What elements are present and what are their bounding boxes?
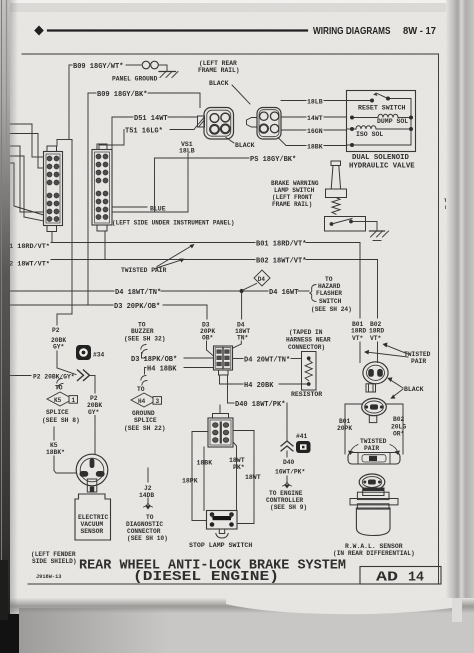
multi-pin connector B (second column) bbox=[97, 144, 107, 150]
wire B01 down to sensor bbox=[359, 243, 361, 319]
valve box bottom wire bbox=[347, 144, 412, 146]
resistor R1 bbox=[302, 352, 317, 391]
round connector C2 (right half) bbox=[257, 108, 281, 140]
wire D51 14WT bbox=[112, 116, 133, 118]
bottom grey table area bbox=[0, 610, 474, 653]
sensor connector oval 2 bbox=[362, 398, 387, 415]
wire H4 18BK bbox=[145, 367, 147, 369]
AD 14 box bbox=[360, 567, 441, 585]
wire from splice down to vacuum sensor bbox=[90, 375, 95, 377]
stop lamp wiring loop bbox=[192, 431, 208, 433]
spine dark strip bbox=[0, 0, 10, 653]
brake warning switch body bbox=[325, 217, 366, 232]
ground symbol (brake warning switch) bbox=[370, 230, 385, 232]
bracket vertical from B09 18GY/WT* bbox=[68, 65, 70, 140]
wire from switch to ground bbox=[366, 221, 378, 223]
wire K5 18BK* bbox=[53, 427, 55, 440]
axle connector bar bbox=[348, 453, 400, 465]
wire D4 18WT/TN* bbox=[8, 290, 114, 292]
header rule bbox=[48, 29, 307, 31]
wire B01 18RD/VT* bbox=[51, 232, 53, 243]
brake warning switch spring bbox=[332, 198, 340, 215]
wire D40 18WT/PK* bbox=[227, 375, 229, 403]
wire B09 18GY/BK* bbox=[88, 92, 96, 94]
curved white paper bottom right bbox=[226, 598, 452, 614]
arrow to engine controller bbox=[286, 476, 288, 482]
frame border top bbox=[22, 53, 439, 55]
diamond symbol D4 bbox=[254, 270, 270, 286]
wire D4 16WT to hazard flasher bbox=[244, 290, 269, 292]
brake warning switch plunger bbox=[331, 161, 341, 166]
C1 wire seal tab bbox=[198, 116, 205, 127]
break chevrons on D40 wire bbox=[281, 441, 293, 451]
wire D3 18PK/OB* bbox=[142, 357, 147, 359]
junction node D4 bbox=[240, 289, 244, 293]
wire H4 20BK bbox=[219, 375, 221, 384]
electric vacuum sensor connector (round) bbox=[76, 454, 108, 486]
wire B09 18GY/WT* to panel ground bbox=[69, 64, 72, 66]
frame border right bbox=[438, 54, 440, 584]
6-pin connector C3 bbox=[214, 346, 233, 370]
dump solenoid coil bbox=[352, 117, 378, 119]
wire 18BK bbox=[278, 138, 286, 146]
wire B02 down to sensor bbox=[377, 260, 379, 319]
in-line connector symbol on panel ground wire bbox=[142, 61, 150, 69]
wire D4 20WT/TN* to resistor bbox=[233, 358, 244, 360]
wire 16GN bbox=[281, 129, 306, 131]
frame border bottom bbox=[28, 583, 441, 585]
header diamond bbox=[34, 26, 44, 36]
wire PS 18GY/BK* bbox=[155, 157, 249, 159]
right page edge band bbox=[446, 0, 474, 653]
multi-pin connector A (left column) bbox=[47, 146, 57, 152]
reset switch bbox=[347, 100, 371, 102]
bottom shadow band under paper bbox=[0, 598, 474, 613]
iso solenoid coil bbox=[347, 128, 357, 130]
D3 branch down to connector bbox=[206, 305, 208, 319]
splice reference K5 bbox=[57, 378, 63, 388]
bottom-left black block bbox=[0, 614, 19, 653]
connector symbol #34 bbox=[76, 345, 91, 360]
wire P2 20BK/GY* from left edge bbox=[8, 375, 31, 377]
dual solenoid hydraulic valve box bbox=[347, 91, 416, 152]
splice chevrons bbox=[78, 370, 90, 381]
sensor connector oval 1 bbox=[363, 362, 388, 384]
label BLUE with leader bbox=[113, 206, 147, 208]
brace to hazard flasher switch bbox=[309, 285, 316, 302]
R.W.A.L. sensor connector oval 3 bbox=[359, 474, 385, 490]
D4 branch down to connector bbox=[241, 293, 243, 319]
round connector C1 black (left half) bbox=[204, 108, 234, 140]
panel ground symbol bbox=[166, 65, 168, 72]
stop lamp switch SW1 bbox=[207, 511, 238, 530]
wire B02 18WT/VT* bbox=[104, 231, 106, 260]
wire T51 16LG* bbox=[170, 129, 194, 131]
stop lamp loop connector C4 bbox=[219, 405, 221, 414]
splice reference H4 ground bbox=[144, 368, 146, 375]
wire J2 14DB bbox=[147, 468, 149, 482]
P2 chain from connector B down bbox=[71, 140, 73, 315]
wire 18LB bbox=[281, 100, 306, 102]
twisted pair loop to axle sensor bbox=[345, 403, 362, 405]
R.W.A.L. sensor body bbox=[363, 488, 384, 496]
C2 nub bbox=[247, 118, 258, 128]
long vertical from B09 18GY/BK* bracket bbox=[87, 93, 89, 305]
electric vacuum sensor box bbox=[75, 494, 111, 540]
wire 14WT bbox=[281, 116, 306, 118]
left edge stub wires into connector A bbox=[8, 123, 32, 125]
wire VS1 18LB vertical bbox=[187, 154, 189, 213]
wire D3 20PK/OB* bbox=[8, 304, 113, 306]
right rail inside valve box bbox=[410, 99, 412, 146]
